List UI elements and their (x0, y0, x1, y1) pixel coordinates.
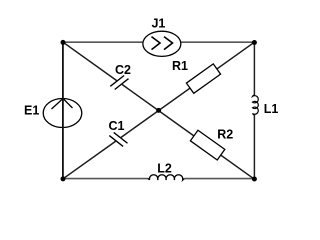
wire bottom-right segment (184, 178, 254, 180)
svg-text:L1: L1 (264, 102, 279, 116)
node TL junction (61, 40, 66, 45)
wire bottom-left segment (63, 178, 148, 180)
node center junction (156, 108, 161, 113)
svg-text:C2: C2 (115, 63, 131, 77)
current source J1 (143, 17, 181, 57)
svg-text:R2: R2 (217, 128, 233, 142)
voltage source E1 (24, 99, 82, 128)
capacitor C2 (110, 63, 131, 94)
wire right lower segment (253, 115, 255, 179)
wire diagonal TL to BR (63, 42, 254, 179)
inductor L2 (148, 162, 185, 180)
wire top (node A to node B) (63, 41, 255, 43)
resistor R1 (172, 59, 221, 93)
capacitor C1 (109, 119, 129, 151)
inductor L1 (253, 95, 279, 116)
svg-text:C1: C1 (109, 119, 125, 133)
svg-text:J1: J1 (151, 17, 165, 31)
svg-text:L2: L2 (157, 162, 172, 176)
wire diagonal BL to TR (63, 42, 254, 179)
resistor R2 (190, 128, 233, 160)
wire right upper segment (253, 42, 255, 95)
node TR junction (252, 40, 257, 45)
svg-text:E1: E1 (24, 104, 39, 118)
svg-text:R1: R1 (172, 59, 188, 73)
node BR junction (252, 177, 257, 182)
node BL junction (61, 176, 66, 181)
wire left (through E1) (62, 42, 64, 178)
